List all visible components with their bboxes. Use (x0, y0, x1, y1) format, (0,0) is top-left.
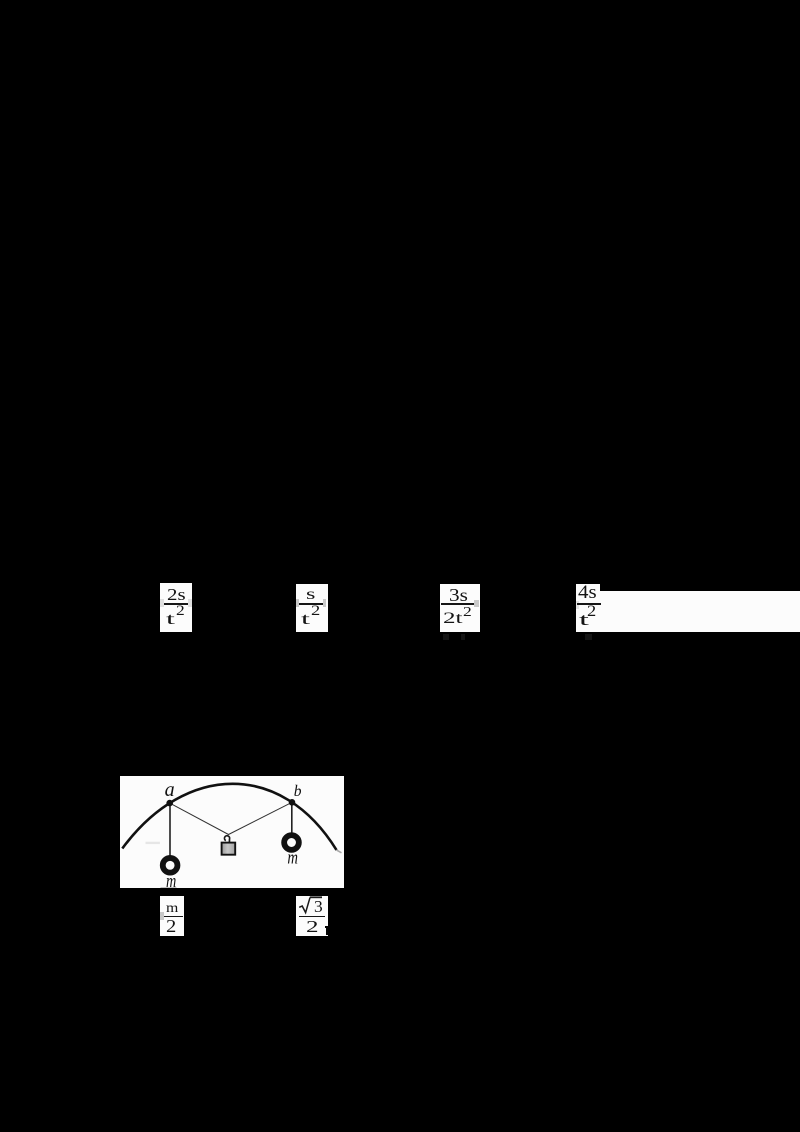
svg-text:m: m (287, 848, 298, 868)
svg-text:b: b (293, 783, 301, 800)
svg-text:m: m (166, 871, 176, 888)
svg-text:a: a (164, 778, 174, 800)
